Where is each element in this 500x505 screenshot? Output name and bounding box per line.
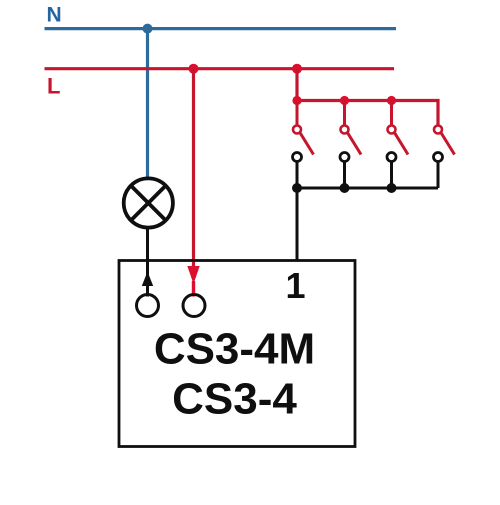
svg-text:N: N [47,4,62,27]
arrow: output direction (up) [142,272,153,287]
wire: S3 to black bus [390,162,393,189]
switch S3 [387,101,408,162]
wire: S2 to black bus [343,162,346,189]
node: junction on L at lamp feed [189,64,199,74]
node: bus junction 2 [340,96,349,105]
switch S4 [434,126,455,162]
wire: L down to switch bus [295,69,298,101]
node: bus junction 1 [292,96,301,105]
svg-text:CS3-4M: CS3-4M [154,325,315,374]
wire: L down to controller input [192,69,195,268]
wire: bus down to terminal 1 [296,188,299,261]
node: black bus junction 1 [292,183,302,193]
switch S2 [340,101,361,162]
wire: red switch bus [297,101,438,127]
wire: lamp to controller output [146,228,149,297]
net L (line bus) [45,67,395,70]
lamp E1 [124,178,173,227]
node: black bus junction 3 [387,183,397,193]
controller box U1 [119,261,355,447]
wire: S1 to black bus [296,162,299,189]
svg-text:CS3-4: CS3-4 [172,375,297,424]
terminal: lamp output [137,295,159,317]
wire: S4 to black bus [437,162,440,189]
switch S1 [293,101,314,162]
svg-text:1: 1 [285,265,305,306]
node: junction on L at switch feed [292,64,302,74]
arrow: L input direction (down) [187,266,199,284]
net N (neutral bus) [45,27,397,30]
wire: black collector bus [297,187,438,190]
node: bus junction 3 [387,96,396,105]
terminal: L input [183,295,205,317]
node: junction on N [143,24,153,34]
wire: N to lamp [146,29,149,179]
node: black bus junction 2 [340,183,350,193]
svg-text:L: L [47,74,60,99]
